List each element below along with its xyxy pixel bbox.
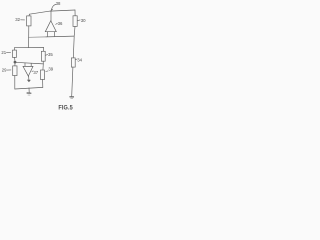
wire right branch [73,26,75,58]
ground (center) [27,88,31,95]
ground (right) [70,97,74,99]
resistor 21 [13,50,17,57]
svg-text:30: 30 [81,18,86,23]
wire below resistor 39 [42,80,44,88]
junction node [14,61,17,64]
resistor 32 [27,16,31,26]
svg-text:29: 29 [2,68,7,73]
wire right branch upper stub [74,10,76,16]
resistor 34 [71,58,75,67]
resistor 29 [13,66,17,76]
wire feedback rail y62 [15,62,43,64]
svg-text:39: 39 [48,66,53,71]
wire left branch upper stub [28,14,30,16]
wire below resistor 35 [42,61,44,64]
resistor 35 [41,51,45,61]
label 30 [78,18,87,23]
op-amp 36 [45,21,56,37]
wire stub above resistor 29 [14,62,16,66]
svg-text:38: 38 [56,1,61,6]
label 39 [46,66,54,71]
wire bottom rail [15,87,43,89]
label 21 [1,50,10,55]
svg-text:21: 21 [1,50,6,55]
wire left branch [28,26,30,48]
label 32 [15,17,24,22]
wire stub above resistor 39 [42,64,44,70]
wire divider mid rail y47 [14,46,43,48]
svg-text:32: 32 [15,17,20,22]
label 36 [56,21,63,26]
lead arrow 38 [51,4,56,10]
wire stub above resistor 21 [13,48,15,50]
wire top rail [29,10,75,14]
svg-text:FIG.5: FIG.5 [58,104,73,112]
wire below resistor 21 [14,57,16,62]
wire below resistor 29 [14,76,16,89]
resistor 39 [41,70,45,80]
down arrow from op-amp 37 output [27,76,30,82]
svg-text:37: 37 [33,70,38,75]
op-amp 37 [23,63,33,76]
label 29 [2,68,11,73]
svg-text:34: 34 [77,57,82,62]
wire right branch lower [72,67,73,96]
label 35 [46,52,54,57]
wire op-amp 36 feed from top rail [50,11,52,21]
resistor 30 [73,16,77,27]
label 37 [32,70,39,75]
label 34 [76,57,83,62]
wire bias rail (mid) [29,36,47,38]
svg-text:36: 36 [58,21,63,26]
wire stub above resistor 35 [42,47,44,51]
svg-text:35: 35 [48,52,53,57]
